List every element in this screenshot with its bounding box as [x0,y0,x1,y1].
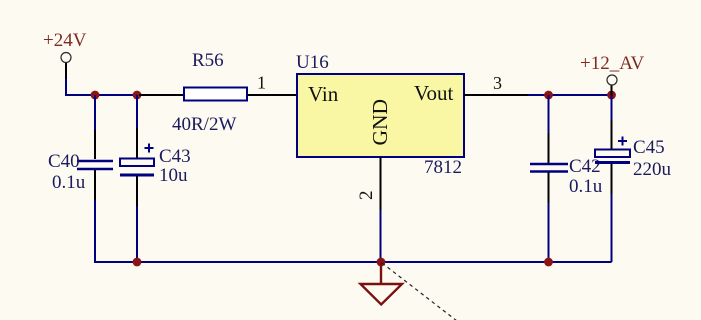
capacitor C40 value 0.1u [52,172,86,193]
bottom ground rail wire [95,261,612,262]
capacitor C43 lower lead [136,176,138,262]
pin number 3 [493,73,502,93]
svg-text:C40: C40 [48,151,80,172]
svg-text:Vin: Vin [308,82,339,106]
power port +12_AV terminal circle [607,75,617,85]
capacitor C45 bottom plate [595,161,630,164]
capacitor C45 lower lead [611,164,613,262]
ground symbol stem [380,262,382,284]
ground symbol triangle [361,284,403,305]
svg-text:1: 1 [257,73,266,93]
svg-text:GND: GND [368,99,392,146]
U16 part number 7812 [424,157,462,178]
power port +24V label [43,30,87,51]
svg-text:40R/2W: 40R/2W [172,114,236,135]
capacitor C43 top plate (rect) [120,159,154,167]
op-amp U16 body rectangle (7812 regulator) [297,74,464,157]
wire top-right rail [528,94,612,96]
resistor value 40R/2W [172,114,236,135]
junction dot at ground node [377,258,386,267]
U16 pin 3 stub [464,94,529,96]
capacitor C43 value 10u [159,165,188,186]
capacitor C43 plus sign [145,144,154,153]
wire from +24V down and along top-left rail [66,79,140,95]
U16 pin name Vout [414,81,453,105]
dashed construction line [382,263,457,320]
svg-text:Vout: Vout [414,81,453,105]
U16 pin 2 stub [380,157,382,212]
svg-text:0.1u: 0.1u [52,172,86,193]
resistor R56 right pin [247,94,298,96]
resistor R56 body [184,88,247,101]
resistor designator R56 [192,50,224,71]
capacitor C42 value 0.1u [569,176,603,197]
capacitor C42 lower lead [548,172,550,262]
junction dot at C43 top node [133,91,142,100]
pin number 2 (rotated) [356,191,377,201]
junction dot at C42 bottom node [544,258,553,267]
U16 designator label [296,52,329,73]
svg-text:0.1u: 0.1u [569,176,603,197]
capacitor C40 upper lead [94,95,96,159]
power port +24V pin stub [65,63,67,80]
capacitor C42 designator [569,156,601,177]
junction dot at C43 bottom node [133,258,142,267]
junction dot at C45 top node [607,91,616,100]
power port +12_AV pin stub [611,85,613,95]
capacitor C43 bottom plate [120,174,154,177]
svg-text:+24V: +24V [43,30,87,51]
junction dot at C40 top node [91,91,100,100]
junction dot at C42 top node [544,91,553,100]
U16 pin name GND (rotated) [368,99,392,146]
capacitor C43 designator [159,146,191,167]
capacitor C42 plates [530,164,568,172]
resistor R56 left pin [139,94,184,96]
svg-text:7812: 7812 [424,157,462,178]
capacitor C45 designator [633,137,665,158]
capacitor C45 value 220u [633,159,672,180]
capacitor C40 designator [48,151,80,172]
capacitor C42 upper lead [548,95,550,163]
power port +24V terminal circle [61,53,71,63]
svg-text:10u: 10u [159,165,188,186]
svg-text:220u: 220u [633,159,672,180]
wire pin2 to ground rail [380,210,382,262]
svg-text:2: 2 [356,191,377,201]
svg-text:U16: U16 [296,52,329,73]
U16 pin name Vin [308,82,339,106]
capacitor C45 upper lead [611,95,613,149]
svg-text:C45: C45 [633,137,665,158]
svg-text:+12_AV: +12_AV [580,53,644,74]
capacitor C43 upper lead [136,95,138,158]
svg-text:C43: C43 [159,146,191,167]
capacitor C45 top plate (rect) [595,150,630,158]
capacitor C40 plates [77,161,113,169]
pin number 1 [257,73,266,93]
svg-text:R56: R56 [192,50,224,71]
capacitor C40 lower lead [94,170,96,262]
power port +12_AV label [580,53,644,74]
svg-text:C42: C42 [569,156,601,177]
svg-text:3: 3 [493,73,502,93]
capacitor C45 plus sign [618,137,627,146]
